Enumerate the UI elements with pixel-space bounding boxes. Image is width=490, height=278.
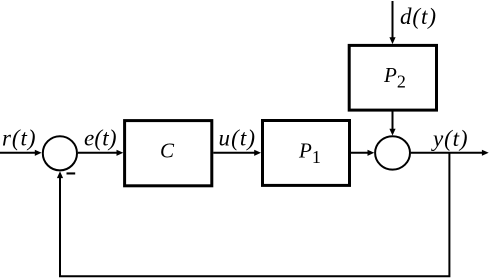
wire S2 to output y(t) [411, 152, 482, 154]
svg-text:C: C [160, 139, 175, 163]
svg-text:e(t): e(t) [84, 126, 117, 151]
block C [125, 121, 212, 186]
wire feedback from output node down, across bottom, up to S1 [60, 153, 449, 276]
block P2 [349, 45, 436, 110]
summing junction S2 [375, 136, 410, 169]
wire d(t) input into P2 [392, 1, 394, 38]
svg-text:y(t): y(t) [431, 126, 468, 151]
wire S1 to block C [78, 152, 117, 154]
wire P1 to summing junction S2 [351, 152, 368, 154]
svg-text:r(t): r(t) [2, 126, 36, 151]
wire r(t) input to summing junction S1 [0, 152, 35, 154]
svg-text:d(t): d(t) [400, 4, 436, 29]
summing junction S1 [43, 136, 77, 170]
svg-text:u(t): u(t) [219, 126, 256, 151]
wire C to P1 [213, 152, 254, 154]
block P1 [263, 121, 350, 186]
minus sign at S1 [67, 172, 76, 174]
wire P2 to summing junction S2 [392, 112, 394, 130]
